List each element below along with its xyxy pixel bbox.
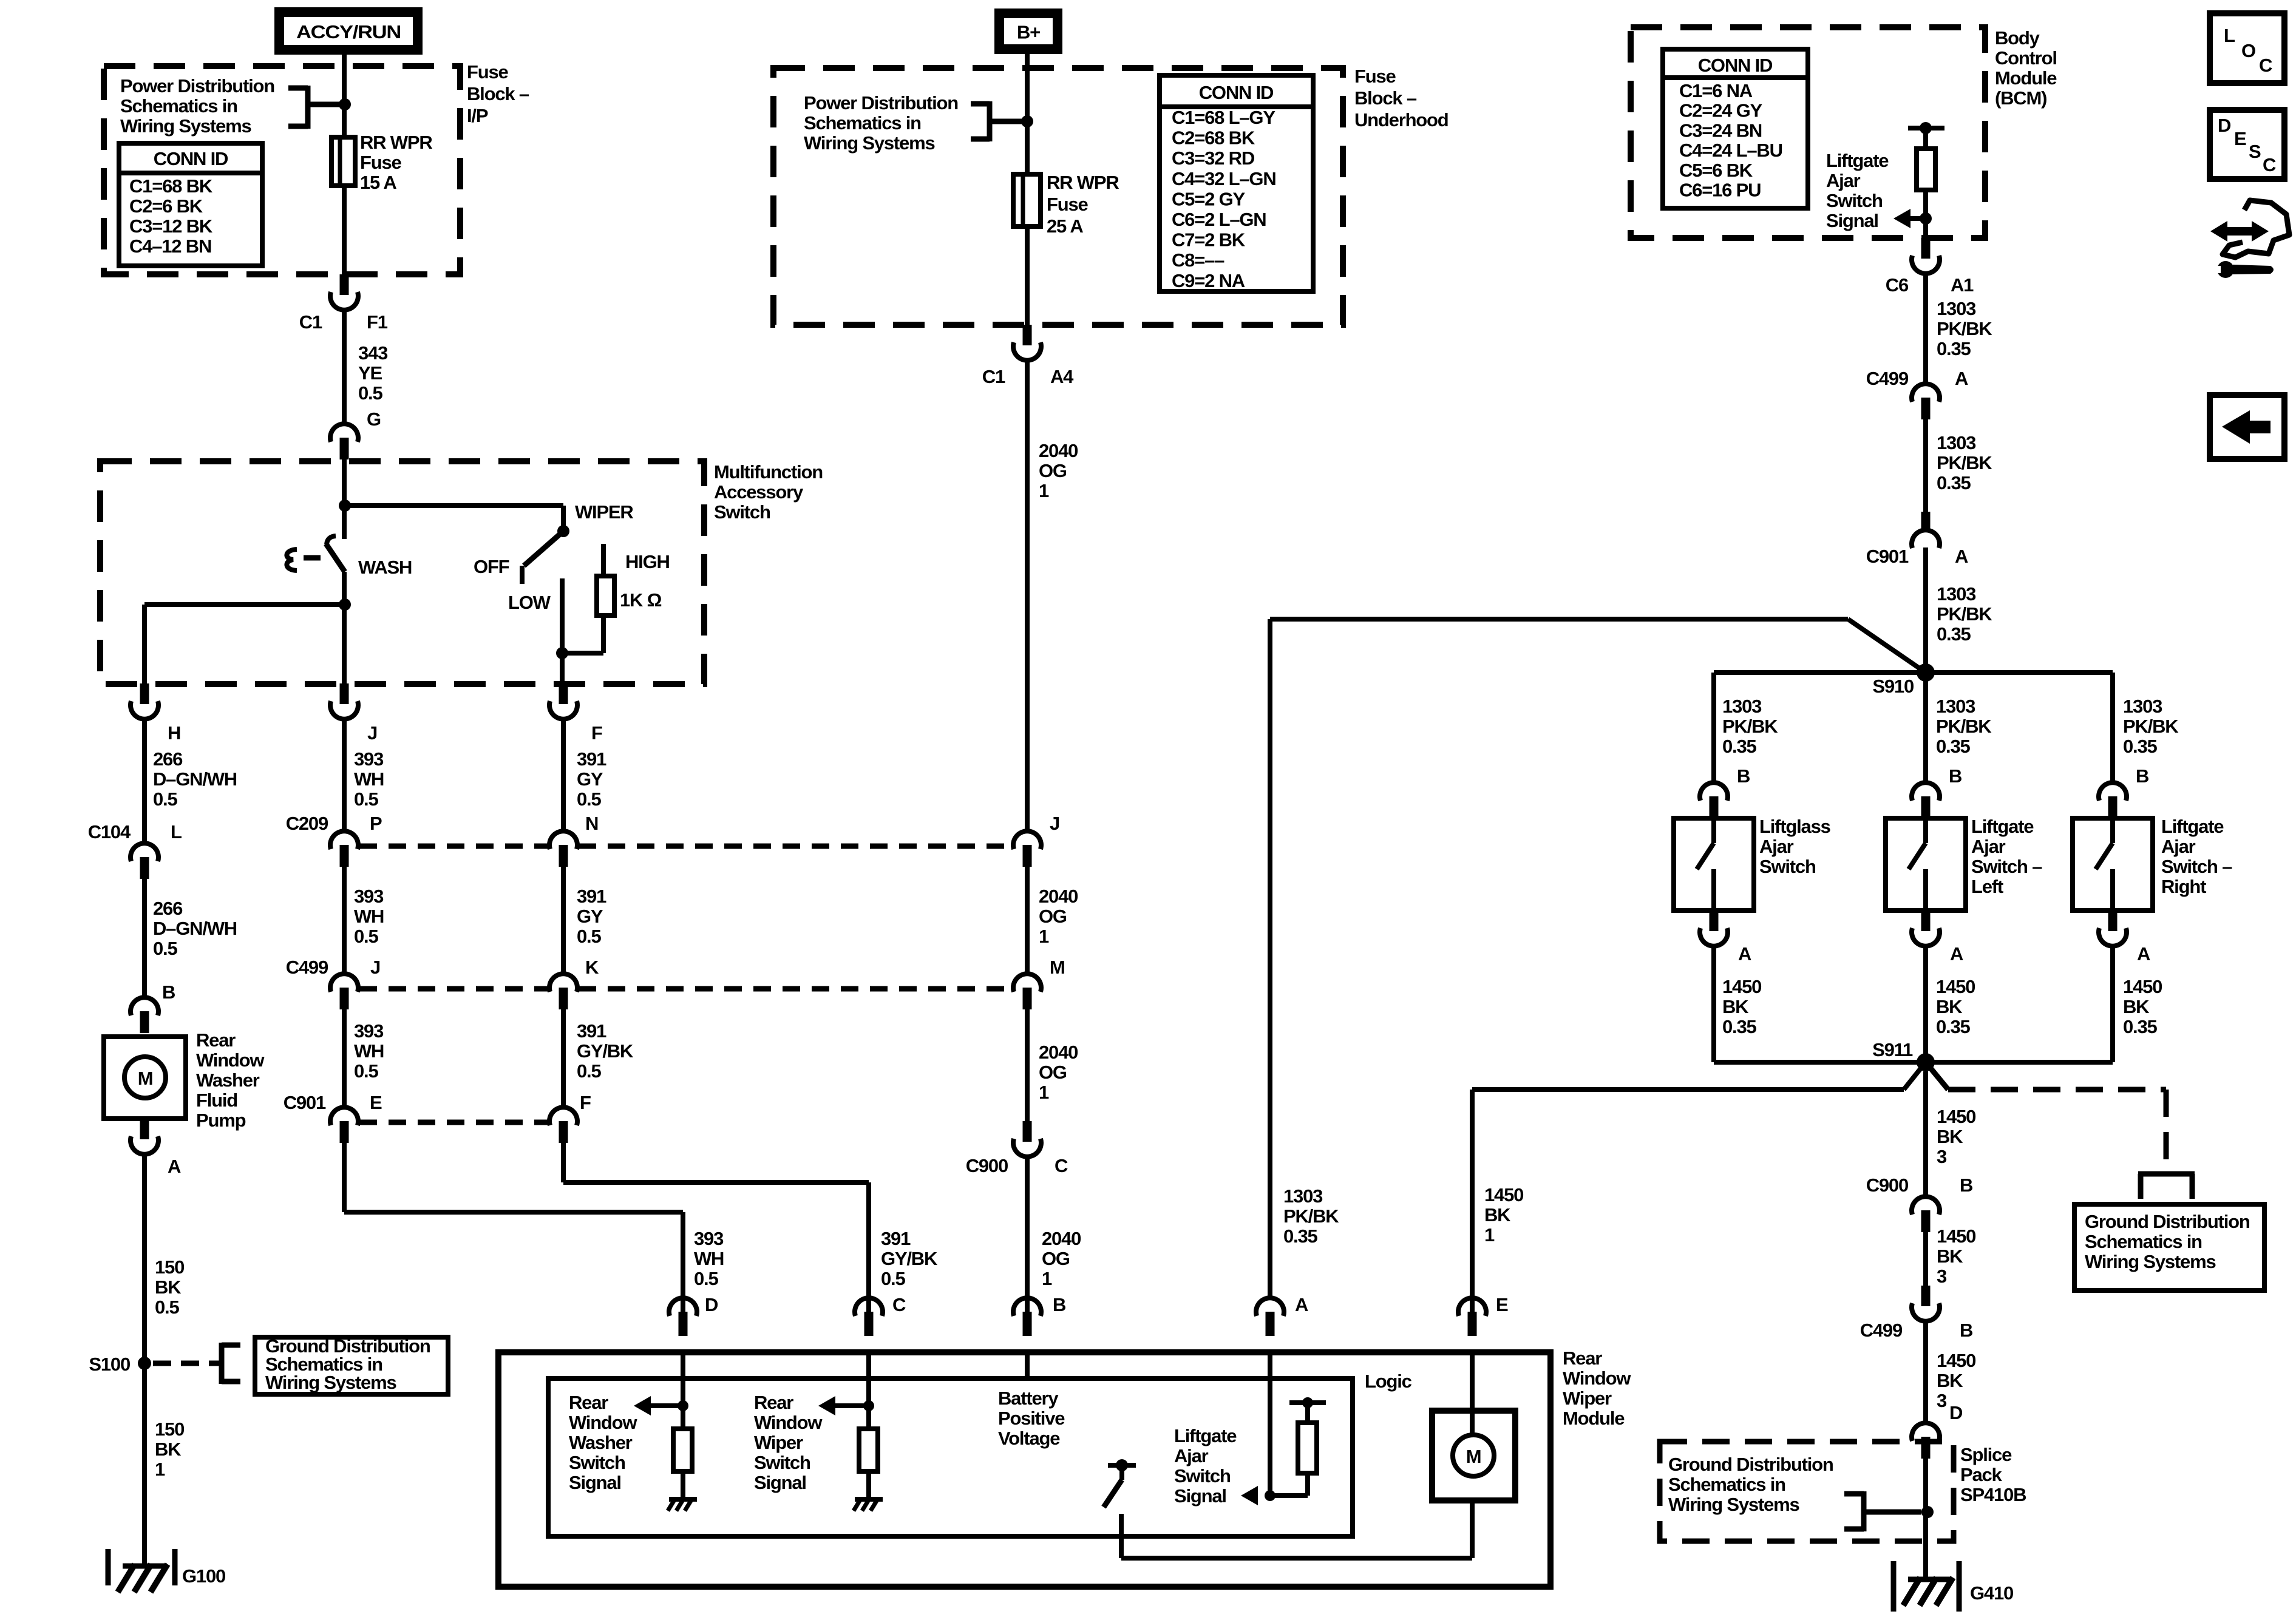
svg-text:Liftgate: Liftgate <box>1826 150 1889 171</box>
svg-text:Module: Module <box>1563 1408 1625 1429</box>
connector C209 dashed line <box>359 844 548 849</box>
ground reference bracket (right) <box>2138 1171 2195 1177</box>
liftgate ajar switch right contacts and blade <box>2110 818 2115 843</box>
svg-text:C2=24 GY: C2=24 GY <box>1679 100 1763 121</box>
module internal switch stem <box>1119 1465 1124 1480</box>
svg-text:1450: 1450 <box>1937 1225 1975 1247</box>
connector B into pump <box>131 997 158 1015</box>
wire resistor to junction <box>601 615 606 653</box>
svg-text:CONN ID: CONN ID <box>1199 82 1274 103</box>
connector C901 dashed line <box>359 1120 548 1125</box>
wire E to module pin D <box>342 1143 347 1212</box>
svg-text:A: A <box>1955 368 1968 389</box>
OFF contact <box>520 566 525 584</box>
svg-text:WIPER: WIPER <box>575 501 633 523</box>
svg-text:Schematics in: Schematics in <box>2085 1231 2202 1252</box>
svg-text:OG: OG <box>1039 1062 1067 1083</box>
svg-text:LOW: LOW <box>508 592 551 613</box>
pullup top bar <box>1305 1403 1310 1423</box>
wire S911 to module pin E (diagonal) <box>1904 1062 1926 1090</box>
wire B+ to fuse <box>1025 54 1030 174</box>
module internal switch pivot dot <box>1116 1459 1128 1471</box>
svg-text:B: B <box>1949 765 1961 787</box>
ground G100 <box>106 1549 111 1585</box>
svg-text:3: 3 <box>1937 1146 1947 1167</box>
svg-text:C4=24 L–BU: C4=24 L–BU <box>1679 140 1782 161</box>
svg-text:3: 3 <box>1937 1390 1947 1411</box>
CONN ID table I/P <box>119 143 262 266</box>
icon box back arrow <box>2210 395 2284 459</box>
connector C209 pin J (fuse block underhood wire) <box>1013 831 1041 849</box>
wire ACCY/RUN to fuse <box>342 55 347 137</box>
wire E pin to motor <box>1470 1352 1475 1436</box>
svg-text:C499: C499 <box>1866 368 1909 389</box>
svg-text:0.5: 0.5 <box>358 382 382 404</box>
wiper switch blade to OFF <box>524 531 563 566</box>
svg-text:Module: Module <box>1995 67 2057 89</box>
svg-text:WH: WH <box>354 906 384 927</box>
power flag ACCY/RUN <box>274 7 423 55</box>
wire fuse to C1/F1 <box>342 186 347 274</box>
svg-text:I/P: I/P <box>467 105 488 126</box>
svg-text:0.35: 0.35 <box>1937 472 1971 493</box>
wire S911 to C900 (right) <box>1923 1071 1928 1196</box>
svg-text:0.5: 0.5 <box>577 1060 601 1082</box>
wire C104 to pump B <box>142 879 147 997</box>
rear window washer fluid pump box <box>104 1037 186 1119</box>
S100 dashed reference line <box>153 1361 220 1366</box>
svg-text:K: K <box>585 957 599 978</box>
svg-text:Window: Window <box>1563 1368 1631 1389</box>
svg-text:A: A <box>2137 943 2150 964</box>
wire C499 to splice pack <box>1923 1321 1928 1423</box>
wash detent dash <box>304 555 321 561</box>
CONN ID table underhood <box>1160 75 1313 291</box>
svg-text:Switch –: Switch – <box>2161 856 2232 877</box>
svg-text:S100: S100 <box>89 1354 130 1375</box>
logic box <box>548 1378 1353 1536</box>
svg-text:A4: A4 <box>1050 366 1074 387</box>
svg-text:G: G <box>367 408 381 430</box>
svg-text:WH: WH <box>354 1040 384 1062</box>
svg-text:1: 1 <box>1039 926 1049 947</box>
svg-text:Liftgate: Liftgate <box>2161 816 2224 837</box>
connector H <box>140 683 149 704</box>
svg-text:1: 1 <box>1039 480 1049 501</box>
svg-text:0.35: 0.35 <box>2123 1016 2157 1037</box>
svg-text:0.35: 0.35 <box>1722 736 1756 757</box>
svg-text:0.5: 0.5 <box>354 926 378 947</box>
svg-text:(BCM): (BCM) <box>1995 87 2046 109</box>
svg-text:Positive: Positive <box>998 1408 1065 1429</box>
svg-text:O: O <box>2241 40 2255 61</box>
wire 2040 OG <box>1025 361 1030 832</box>
BCM arrow junction dot <box>1920 212 1932 225</box>
svg-text:G100: G100 <box>182 1565 225 1587</box>
svg-text:Wiper: Wiper <box>1563 1388 1612 1409</box>
wire C499 to C901 (right) <box>1923 419 1928 512</box>
washer signal arrow <box>634 1396 651 1415</box>
svg-text:C2=6 BK: C2=6 BK <box>129 195 203 217</box>
splice S910 <box>1917 663 1935 682</box>
S100 bracket <box>219 1343 225 1384</box>
svg-text:Switch: Switch <box>1826 190 1883 211</box>
junction dot (underhood) <box>1021 115 1033 127</box>
wire A to bottom rail (liftglass ajar switch) <box>1711 946 1716 1062</box>
wire C901 to S910 <box>1923 547 1928 673</box>
wire junction to pullup resistor <box>1270 1493 1308 1498</box>
svg-text:Pack: Pack <box>1960 1464 2003 1485</box>
svg-text:A: A <box>168 1156 181 1177</box>
svg-text:0.35: 0.35 <box>1937 338 1971 359</box>
connector C499 pin K <box>549 974 577 992</box>
svg-text:ACCY/RUN: ACCY/RUN <box>296 21 401 42</box>
module connector pin E <box>1458 1298 1486 1316</box>
svg-text:Wiring Systems: Wiring Systems <box>1668 1494 1799 1515</box>
connector C499 dashed line <box>359 986 548 992</box>
svg-text:A: A <box>1738 943 1751 964</box>
svg-text:0.5: 0.5 <box>153 938 177 959</box>
pullup top dot <box>1302 1397 1313 1408</box>
svg-text:Multifunction: Multifunction <box>714 461 823 483</box>
svg-text:E: E <box>370 1092 382 1113</box>
splice pack bracket <box>1861 1491 1867 1531</box>
svg-text:C4=32 L–GN: C4=32 L–GN <box>1172 168 1276 189</box>
svg-text:C3=24 BN: C3=24 BN <box>1679 120 1762 141</box>
svg-text:PK/BK: PK/BK <box>2123 716 2179 737</box>
wire resistor to ground (wiper) <box>866 1471 871 1499</box>
svg-text:RR WPR: RR WPR <box>1047 172 1119 193</box>
svg-text:Switch: Switch <box>754 1452 810 1473</box>
wire A to bottom rail (liftgate ajar switch right) <box>2110 946 2115 1062</box>
wire K to C901 <box>561 1009 566 1107</box>
svg-text:PK/BK: PK/BK <box>1937 318 1992 339</box>
bracket to wire (underhood) <box>987 101 993 141</box>
wire J to C209 <box>342 719 347 832</box>
svg-text:C5=6 BK: C5=6 BK <box>1679 160 1753 181</box>
wire bar to resistor <box>1923 128 1928 149</box>
svg-text:Ajar: Ajar <box>1174 1445 1209 1466</box>
svg-text:WASH: WASH <box>358 557 412 578</box>
svg-text:1450: 1450 <box>1484 1184 1523 1205</box>
splice pack SP410B dashed box <box>1660 1442 1954 1541</box>
svg-text:OG: OG <box>1039 906 1067 927</box>
svg-text:Fuse: Fuse <box>360 152 402 173</box>
svg-text:Liftglass: Liftglass <box>1759 816 1830 837</box>
svg-text:Voltage: Voltage <box>998 1428 1060 1449</box>
svg-text:0.35: 0.35 <box>1722 1016 1756 1037</box>
svg-text:Fuse: Fuse <box>1047 194 1089 215</box>
svg-text:PK/BK: PK/BK <box>1936 716 1992 737</box>
svg-text:BK: BK <box>1937 1370 1963 1391</box>
liftgate ajar signal wire in module <box>1268 1352 1272 1496</box>
splice pack junction dot <box>1921 1506 1934 1518</box>
svg-text:391: 391 <box>577 886 606 907</box>
svg-text:P: P <box>370 813 382 834</box>
wire fuse to box bottom <box>1025 226 1030 325</box>
svg-text:1450: 1450 <box>2123 976 2162 997</box>
svg-text:0.35: 0.35 <box>1937 623 1971 645</box>
svg-text:M: M <box>1466 1446 1481 1467</box>
svg-text:BK: BK <box>1484 1204 1511 1225</box>
liftglass ajar switch box <box>1674 818 1754 910</box>
svg-text:Signal: Signal <box>1826 210 1878 231</box>
wire module pin A to S910 <box>1268 619 1272 1299</box>
svg-text:Switch: Switch <box>714 501 770 523</box>
washer signal junction dot <box>678 1400 688 1411</box>
fuse RR WPR 25A <box>1013 174 1041 226</box>
svg-text:D: D <box>705 1294 718 1315</box>
svg-text:C8=––: C8=–– <box>1172 249 1224 271</box>
svg-text:391: 391 <box>577 748 606 770</box>
svg-text:Schematics in: Schematics in <box>120 95 237 117</box>
body control module dashed box <box>1631 27 1985 238</box>
svg-text:Switch: Switch <box>569 1452 625 1473</box>
svg-text:Right: Right <box>2161 876 2206 897</box>
svg-text:Splice: Splice <box>1960 1444 2012 1465</box>
BCM pullup top dot <box>1920 122 1932 134</box>
svg-text:OG: OG <box>1039 460 1067 481</box>
svg-text:YE: YE <box>358 362 382 384</box>
svg-text:C1=68 L–GY: C1=68 L–GY <box>1172 107 1275 128</box>
svg-text:1: 1 <box>1484 1224 1495 1246</box>
svg-text:Ajar: Ajar <box>1759 836 1794 857</box>
svg-text:C: C <box>1055 1155 1068 1176</box>
svg-text:RR WPR: RR WPR <box>360 132 432 153</box>
svg-text:Ground Distribution: Ground Distribution <box>2085 1211 2250 1232</box>
svg-text:Control: Control <box>1995 47 2057 69</box>
svg-text:1303: 1303 <box>1937 432 1976 453</box>
svg-text:1303: 1303 <box>1937 583 1976 605</box>
svg-text:Rear: Rear <box>569 1392 608 1413</box>
svg-text:0.5: 0.5 <box>694 1268 718 1289</box>
svg-text:C901: C901 <box>1866 546 1909 567</box>
wiper pulldown resistor <box>859 1429 878 1471</box>
svg-text:C: C <box>2259 55 2272 76</box>
svg-text:150: 150 <box>155 1256 184 1278</box>
svg-text:C499: C499 <box>286 957 328 978</box>
connector C1/F1 <box>340 274 349 295</box>
svg-text:15 A: 15 A <box>360 172 396 193</box>
icon navigation outline shape <box>2223 200 2289 257</box>
svg-text:BK: BK <box>155 1439 182 1460</box>
svg-text:OFF: OFF <box>474 556 509 577</box>
svg-text:J: J <box>370 957 380 978</box>
liftglass ajar switch contacts and blade <box>1711 818 1716 843</box>
svg-text:C499: C499 <box>1860 1320 1903 1341</box>
svg-text:C1=68 BK: C1=68 BK <box>129 175 213 197</box>
svg-text:Schematics in: Schematics in <box>804 112 921 134</box>
wire switch to motor <box>1121 1556 1472 1561</box>
svg-text:Washer: Washer <box>569 1432 633 1453</box>
LOW contact wire <box>560 578 565 653</box>
svg-text:C1: C1 <box>982 366 1005 387</box>
wire M to C900 <box>1025 1009 1030 1121</box>
svg-text:C4–12 BN: C4–12 BN <box>129 236 211 257</box>
svg-text:L: L <box>2224 25 2235 46</box>
svg-text:0.5: 0.5 <box>881 1268 905 1289</box>
svg-text:Battery: Battery <box>998 1388 1059 1409</box>
svg-text:0.5: 0.5 <box>153 788 177 810</box>
svg-text:C3=12 BK: C3=12 BK <box>129 215 213 237</box>
wire to washer column <box>144 602 344 607</box>
svg-text:Rear: Rear <box>754 1392 793 1413</box>
svg-text:SP410B: SP410B <box>1960 1484 2026 1505</box>
svg-text:PK/BK: PK/BK <box>1722 716 1778 737</box>
wire to wiper pivot <box>344 503 563 508</box>
logic ground (wiper) <box>855 1497 883 1502</box>
svg-text:0.35: 0.35 <box>1936 1016 1970 1037</box>
svg-text:1: 1 <box>1042 1268 1052 1289</box>
wire A1 to C499 <box>1923 274 1928 383</box>
wire into switch <box>342 459 347 506</box>
liftgate ajar arrow <box>1241 1486 1258 1505</box>
svg-text:Left: Left <box>1971 876 2003 897</box>
svg-text:Block –: Block – <box>1354 87 1417 109</box>
connector C209 pin P <box>330 831 358 849</box>
svg-text:Ground Distribution: Ground Distribution <box>1668 1454 1833 1475</box>
svg-text:C: C <box>2263 154 2276 175</box>
svg-text:0.35: 0.35 <box>2123 736 2157 757</box>
rear window wiper module box <box>498 1352 1550 1587</box>
connector A liftgate ajar switch left <box>1921 910 1931 931</box>
svg-text:A: A <box>1295 1294 1308 1315</box>
svg-text:Wiring Systems: Wiring Systems <box>265 1372 396 1393</box>
connector C901 pin F <box>549 1107 577 1125</box>
connector C6/A1 <box>1921 238 1931 259</box>
battery positive voltage wire <box>1025 1352 1030 1378</box>
svg-text:0.5: 0.5 <box>577 788 601 810</box>
wire C900 to C499 (right) <box>1923 1232 1928 1286</box>
svg-text:0.5: 0.5 <box>354 788 378 810</box>
svg-text:Signal: Signal <box>754 1472 806 1493</box>
svg-text:1450: 1450 <box>1936 976 1975 997</box>
splice S911 <box>1917 1053 1935 1071</box>
svg-text:0.35: 0.35 <box>1936 736 1970 757</box>
BCM pullup resistor <box>1917 149 1935 190</box>
svg-text:C900: C900 <box>1866 1175 1908 1196</box>
connector C901 pin E <box>330 1107 358 1125</box>
svg-text:D: D <box>1949 1402 1963 1423</box>
svg-text:L: L <box>171 821 182 842</box>
svg-text:Wiring Systems: Wiring Systems <box>120 115 251 137</box>
svg-text:PK/BK: PK/BK <box>1283 1205 1339 1227</box>
svg-text:1K Ω: 1K Ω <box>620 589 662 611</box>
module connector pin B <box>1013 1298 1041 1316</box>
wiper pivot dot <box>557 525 569 537</box>
wire N to C499 <box>561 867 566 973</box>
svg-text:C209: C209 <box>286 813 328 834</box>
connector C499 pin J <box>330 974 358 992</box>
svg-text:0.5: 0.5 <box>577 926 601 947</box>
wiper signal junction dot <box>863 1400 874 1411</box>
svg-text:2040: 2040 <box>1039 1042 1078 1063</box>
svg-text:B: B <box>162 981 175 1003</box>
wire pump A to S100 <box>142 1154 147 1363</box>
svg-text:393: 393 <box>354 1020 384 1042</box>
svg-text:Window: Window <box>196 1049 265 1071</box>
connector F <box>559 683 568 704</box>
svg-text:2040: 2040 <box>1039 886 1078 907</box>
wire J to C901 <box>342 1009 347 1107</box>
svg-text:G410: G410 <box>1970 1582 2013 1604</box>
svg-text:1303: 1303 <box>2123 696 2162 717</box>
wire F to module pin C <box>561 1143 566 1182</box>
svg-text:PK/BK: PK/BK <box>1937 603 1992 625</box>
svg-text:WH: WH <box>694 1248 724 1269</box>
svg-text:C900: C900 <box>966 1155 1008 1176</box>
BCM pullup top bar <box>1908 126 1944 131</box>
svg-text:Fluid: Fluid <box>196 1090 237 1111</box>
resistor 1K in wiper switch <box>597 576 614 615</box>
svg-text:2040: 2040 <box>1042 1228 1081 1249</box>
svg-text:C901: C901 <box>284 1092 326 1113</box>
svg-text:Switch: Switch <box>1759 856 1816 877</box>
svg-text:Liftgate: Liftgate <box>1971 816 2034 837</box>
svg-text:C9=2 NA: C9=2 NA <box>1172 270 1245 291</box>
svg-text:D–GN/WH: D–GN/WH <box>153 768 237 790</box>
svg-text:Accessory: Accessory <box>714 481 804 503</box>
fuse block I/P dashed box <box>104 66 460 274</box>
svg-text:BK: BK <box>155 1276 182 1298</box>
svg-text:F1: F1 <box>367 311 388 333</box>
svg-text:Switch –: Switch – <box>1971 856 2042 877</box>
svg-text:CONN ID: CONN ID <box>1698 55 1773 76</box>
wire P to C499 <box>342 867 347 973</box>
svg-text:B: B <box>1053 1294 1065 1315</box>
svg-text:Wiring Systems: Wiring Systems <box>2085 1251 2216 1272</box>
connector C209 pin N <box>549 831 577 849</box>
svg-text:A1: A1 <box>1951 274 1974 296</box>
svg-text:0.35: 0.35 <box>1283 1225 1317 1247</box>
liftgate ajar switch right box <box>2073 818 2153 910</box>
svg-text:C2=68 BK: C2=68 BK <box>1172 127 1255 149</box>
connector A out of pump <box>140 1119 149 1139</box>
fuse block underhood dashed box <box>773 68 1343 325</box>
svg-text:C6=2 L–GN: C6=2 L–GN <box>1172 209 1266 230</box>
svg-text:266: 266 <box>153 748 183 770</box>
splice S100 <box>138 1357 151 1370</box>
svg-text:PK/BK: PK/BK <box>1937 452 1992 473</box>
wire A to bottom rail (liftgate ajar switch left) <box>1923 946 1928 1062</box>
svg-text:A: A <box>1950 943 1963 964</box>
module internal switch lower contact wire <box>1119 1514 1124 1558</box>
BCM liftgate ajar arrow <box>1894 209 1911 228</box>
svg-text:Ajar: Ajar <box>2161 836 2196 857</box>
svg-text:C104: C104 <box>88 821 131 842</box>
svg-text:H: H <box>168 722 180 744</box>
wire 343 YE <box>342 310 347 423</box>
svg-text:Block –: Block – <box>467 83 529 104</box>
svg-text:M: M <box>1050 957 1065 978</box>
wire F to C209 <box>561 719 566 832</box>
svg-text:Schematics in: Schematics in <box>1668 1474 1785 1495</box>
svg-text:E: E <box>1496 1294 1508 1315</box>
svg-text:F: F <box>580 1092 591 1113</box>
svg-text:Power Distribution: Power Distribution <box>804 92 958 114</box>
icon wrench <box>2233 265 2274 274</box>
svg-text:GY: GY <box>577 768 603 790</box>
svg-text:1303: 1303 <box>1937 298 1976 319</box>
connector C104 pin L <box>131 843 158 861</box>
connector C900 pin C <box>1023 1121 1032 1142</box>
svg-text:C6: C6 <box>1886 274 1909 296</box>
svg-text:C7=2 BK: C7=2 BK <box>1172 229 1246 251</box>
icon navigation double arrow <box>2210 221 2269 242</box>
svg-text:266: 266 <box>153 898 183 919</box>
svg-text:391: 391 <box>577 1020 606 1042</box>
ground distribution note box (right) <box>2074 1204 2264 1290</box>
